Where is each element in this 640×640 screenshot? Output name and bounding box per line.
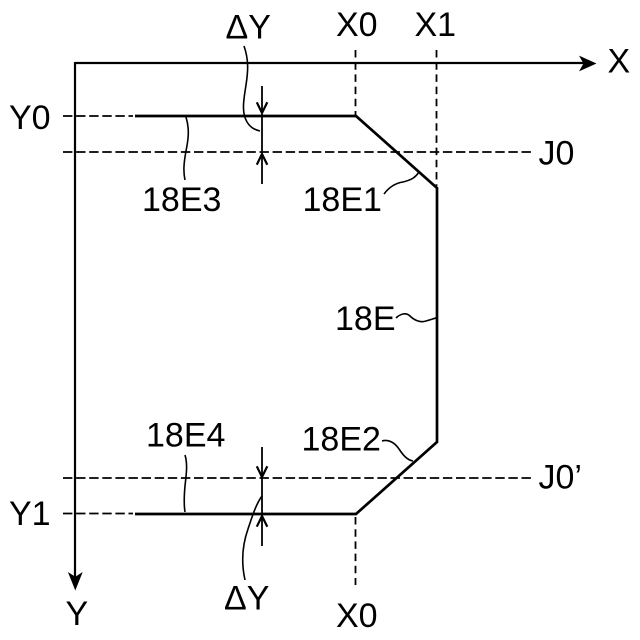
- X axis: [75, 56, 597, 72]
- svg-text:Y: Y: [66, 595, 89, 633]
- edge 18E outline polyline: [135, 116, 437, 514]
- svg-text:X1: X1: [415, 6, 457, 44]
- svg-text:ΔY: ΔY: [224, 580, 269, 618]
- svg-text:18E2: 18E2: [302, 421, 381, 459]
- svg-text:ΔY: ΔY: [226, 9, 271, 47]
- leader from delta-Y top label to dimension shaft: [243, 46, 260, 131]
- dimension arrow top (delta Y between Y0 and J0): [257, 86, 268, 184]
- node Y0 dashed line: [63, 115, 133, 117]
- node J0 dashed line: [63, 151, 531, 153]
- leader from delta-Y bottom label to dimension shaft: [243, 496, 262, 580]
- svg-text:J0’: J0’: [539, 459, 582, 497]
- leader 18E4: [184, 455, 186, 512]
- svg-text:X0: X0: [336, 6, 378, 44]
- Y axis: [68, 62, 83, 591]
- node X0 top dashed line: [355, 50, 357, 115]
- node J0' dashed line: [63, 477, 531, 479]
- svg-text:18E: 18E: [335, 300, 396, 338]
- svg-text:Y1: Y1: [9, 495, 51, 533]
- node Y1 dashed line: [63, 513, 133, 515]
- svg-text:18E3: 18E3: [142, 181, 221, 219]
- svg-text:18E4: 18E4: [146, 417, 225, 455]
- leader 18E3: [184, 117, 188, 180]
- svg-text:J0: J0: [539, 135, 575, 173]
- svg-text:18E1: 18E1: [303, 181, 382, 219]
- svg-text:X: X: [608, 43, 631, 81]
- leader 18E2: [382, 440, 413, 461]
- svg-text:Y0: Y0: [9, 99, 51, 137]
- leader 18E: [396, 314, 437, 322]
- svg-text:X0: X0: [336, 597, 378, 635]
- leader 18E1: [384, 172, 419, 194]
- node X1 dashed line: [436, 50, 438, 186]
- node X0 bottom dashed line: [355, 517, 357, 585]
- dimension arrow bottom (delta Y between J0' and Y1): [257, 447, 268, 546]
